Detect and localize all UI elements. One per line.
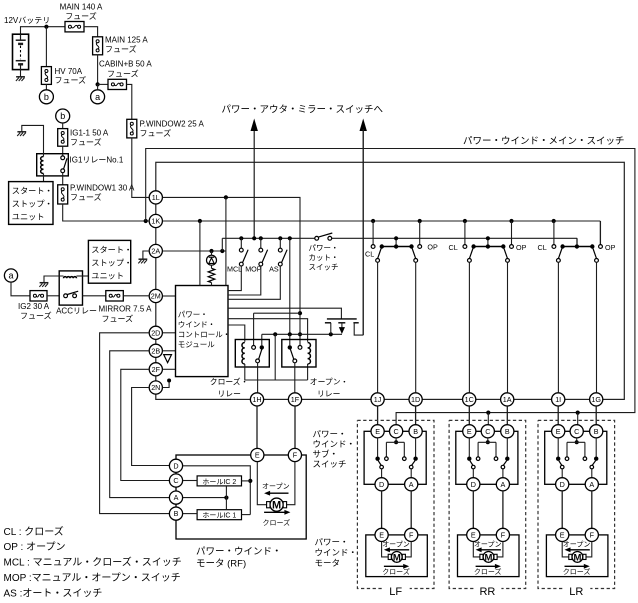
svg-text:CL : クローズ: CL : クローズ xyxy=(4,525,64,538)
svg-text:パワー・ウインド・: パワー・ウインド・ xyxy=(196,547,282,558)
svg-text:P.WINDOW1 30 A: P.WINDOW1 30 A xyxy=(70,184,135,193)
svg-text:ACCリレー: ACCリレー xyxy=(56,307,97,316)
wire 1K bus xyxy=(163,220,601,222)
svg-text:ユニット: ユニット xyxy=(12,213,45,222)
arrow to mirror switch right xyxy=(362,130,364,336)
svg-text:E: E xyxy=(471,531,476,540)
resistor for LED xyxy=(211,265,213,268)
node relay bus riser join xyxy=(288,332,292,336)
svg-text:ホールIC 1: ホールIC 1 xyxy=(202,512,236,520)
svg-text:CL: CL xyxy=(538,243,547,252)
wire LR A to motor F xyxy=(591,491,593,528)
wire module to close relay coil xyxy=(228,325,245,342)
node top-wire junction xyxy=(44,25,48,29)
pin 1J xyxy=(371,393,384,406)
svg-text:モータ: モータ xyxy=(315,558,341,568)
motor LR xyxy=(572,552,583,563)
svg-text:IG1-1 50 A: IG1-1 50 A xyxy=(70,129,109,138)
wire P.WINDOW1 to 1K xyxy=(63,204,149,221)
switch MCL xyxy=(240,238,242,248)
motor LF xyxy=(391,552,402,563)
wire module to MOSFET gate xyxy=(228,308,341,319)
switch LR left arm xyxy=(559,461,562,466)
wire RR to A xyxy=(502,469,504,478)
svg-text:MCL: MCL xyxy=(227,265,242,274)
wire IG1 coil to start-stop unit xyxy=(43,174,45,182)
wire close relay NC riser xyxy=(261,334,263,345)
pin RF B xyxy=(169,507,182,520)
wire RF A to hall supply xyxy=(183,497,227,499)
wire LF to D xyxy=(381,469,383,478)
wire module to open relay coil xyxy=(228,319,308,342)
svg-text:カット・: カット・ xyxy=(309,253,339,262)
svg-text:オープン: オープン xyxy=(563,540,591,548)
svg-text:1G: 1G xyxy=(591,395,601,404)
box RR motor xyxy=(458,535,520,577)
svg-text:1J: 1J xyxy=(374,395,382,404)
pin 1A xyxy=(501,393,514,406)
svg-text:クローズ: クローズ xyxy=(382,567,410,576)
svg-text:MOP: MOP xyxy=(245,265,262,274)
arrow LF open xyxy=(388,549,409,551)
wire LR motor leads xyxy=(562,542,568,557)
motor RF xyxy=(270,498,283,511)
wire 1K bus end down to G3 OP xyxy=(599,221,601,245)
wire 1L riser to module top xyxy=(225,197,227,285)
wire ground to IG1 coil xyxy=(22,125,44,156)
switch AS xyxy=(279,238,281,248)
wire hall1 output xyxy=(242,514,251,516)
svg-text:ユニット: ユニット xyxy=(91,272,124,281)
svg-text:クローズ・: クローズ・ xyxy=(210,377,249,387)
pin LR motor F xyxy=(585,528,598,541)
wire LR to A xyxy=(591,469,593,478)
svg-text:E: E xyxy=(379,531,384,540)
pin RF A xyxy=(169,491,182,504)
pin LF motor E xyxy=(375,528,388,541)
node 1L riser at y313 xyxy=(298,311,302,315)
fuse CABIN+B 50A xyxy=(108,79,127,89)
svg-text:スタート・: スタート・ xyxy=(12,187,53,196)
svg-text:B: B xyxy=(505,427,510,436)
wire module riser from 1K bus xyxy=(199,221,201,286)
svg-text:C: C xyxy=(574,427,579,436)
wire b to IG1-1 fuse xyxy=(62,123,64,129)
node 1K bus tap G3 CL xyxy=(552,219,556,223)
svg-text:2M: 2M xyxy=(151,292,161,301)
node 1K bus module riser xyxy=(198,219,202,223)
svg-text:E: E xyxy=(560,531,565,540)
wire C-feed RR drop xyxy=(487,413,489,426)
svg-text:HV 70A: HV 70A xyxy=(55,67,83,76)
svg-text:パワー・: パワー・ xyxy=(178,310,208,319)
svg-text:フューズ: フューズ xyxy=(102,314,134,324)
wire 2A line xyxy=(163,250,226,252)
pin RR motor F xyxy=(496,528,509,541)
wire LF C bracket xyxy=(395,438,397,442)
wire bus riser to relay bus xyxy=(289,238,291,334)
svg-text:2A: 2A xyxy=(151,247,160,256)
svg-text:b: b xyxy=(60,111,65,121)
wire close relay NO riser xyxy=(253,313,255,345)
svg-text:IG2 30 A: IG2 30 A xyxy=(18,302,50,311)
svg-text:M: M xyxy=(393,552,401,563)
svg-text:MOP :マニュアル・オープン・スイッチ: MOP :マニュアル・オープン・スイッチ xyxy=(4,572,181,584)
transistor MOSFET xyxy=(327,318,357,320)
node hall supply xyxy=(224,496,228,500)
wire 1-pin to LR E xyxy=(557,406,559,425)
svg-text:フューズ: フューズ xyxy=(70,137,102,147)
svg-text:パワー・ウインド・メイン・スイッチ: パワー・ウインド・メイン・スイッチ xyxy=(463,136,625,147)
wire LF to A xyxy=(410,469,412,478)
wire 2D to pin B of RF motor xyxy=(100,333,170,514)
svg-text:オープン・: オープン・ xyxy=(310,378,349,387)
wire MCL-bus left riser xyxy=(221,238,223,251)
svg-text:ストップ・: ストップ・ xyxy=(91,259,132,268)
fuse MAIN 125A xyxy=(93,37,103,55)
wire open coil bottom xyxy=(307,364,309,380)
wire IG1 switch to P.WINDOW1 fuse xyxy=(62,173,64,185)
svg-text:LF: LF xyxy=(389,586,402,598)
node b lower xyxy=(56,109,70,123)
switch rocker G2 (RR window) xyxy=(464,221,466,245)
switch rocker G1 (RF window) xyxy=(372,221,374,245)
pin LF D xyxy=(375,478,388,491)
node bus tap MOP xyxy=(259,236,263,240)
pin LR A xyxy=(585,478,598,491)
wire AS to module xyxy=(228,266,280,299)
pin 1H xyxy=(250,393,263,406)
node wire1 branch on 1K wire xyxy=(144,219,148,223)
svg-text:サブ・: サブ・ xyxy=(313,449,339,459)
pin LR D xyxy=(556,478,569,491)
svg-text:オープン: オープン xyxy=(474,540,502,548)
wire 1L to relay riser xyxy=(163,197,300,345)
pin 1I xyxy=(552,393,565,406)
node LED tap xyxy=(209,249,213,253)
pin 1F xyxy=(288,393,301,406)
svg-text:フューズ: フューズ xyxy=(70,192,102,202)
wire 1F to RF motor F xyxy=(294,406,296,448)
svg-text:コントロール・: コントロール・ xyxy=(178,330,231,339)
wire RF D to hall outputs xyxy=(183,466,251,515)
wire 2D to module xyxy=(163,332,176,334)
fuse IG1-1 50A xyxy=(58,129,68,147)
node C-feed RR xyxy=(486,411,490,415)
svg-text:MAIN 140 A: MAIN 140 A xyxy=(60,3,103,12)
wire junction down to HV fuse xyxy=(45,27,47,67)
pin RR sub C xyxy=(481,425,494,438)
box LF sub-switch xyxy=(364,431,426,484)
wire 2A to ground xyxy=(143,251,149,259)
node 1L riser at y334 xyxy=(298,332,302,336)
svg-text:E: E xyxy=(467,427,472,436)
switch LF left arm xyxy=(378,461,381,466)
svg-text:OP: OP xyxy=(427,243,438,252)
svg-text:オープン: オープン xyxy=(262,483,290,491)
svg-text:A: A xyxy=(174,493,179,502)
switch LF right arm xyxy=(412,461,416,466)
module power window control xyxy=(176,286,229,377)
node bus relay riser xyxy=(288,236,292,240)
wire node to CABIN fuse xyxy=(98,83,108,85)
pin LR sub C xyxy=(570,425,583,438)
svg-text:2N: 2N xyxy=(151,383,160,392)
wire relay NO link y313 xyxy=(254,312,300,314)
wire bus2 end down to G3 center xyxy=(576,238,578,244)
pin LF sub B xyxy=(409,425,422,438)
svg-text:B: B xyxy=(413,427,418,436)
wire close relay common to 1H xyxy=(257,363,259,393)
wire IG1-1 fuse to relay xyxy=(62,146,64,155)
svg-text:CL: CL xyxy=(365,250,374,259)
switch power cut xyxy=(315,236,319,240)
wire battery top to MAIN140 fuse xyxy=(21,27,66,35)
svg-text:A: A xyxy=(501,480,506,489)
box RR sub-switch xyxy=(456,431,518,484)
svg-text:フューズ: フューズ xyxy=(20,311,52,321)
svg-text:モータ (RF): モータ (RF) xyxy=(196,559,246,570)
wire LR C bracket xyxy=(576,438,578,442)
wire LF E contact xyxy=(377,438,379,457)
pin 2N xyxy=(149,381,162,394)
svg-text:フューズ: フューズ xyxy=(65,11,97,21)
node MOSFET source join xyxy=(329,332,333,336)
svg-text:F: F xyxy=(501,531,506,540)
ground 2A xyxy=(139,258,148,260)
wire MIRROR fuse to 2M xyxy=(123,295,149,297)
wire RR B contact xyxy=(506,438,508,457)
svg-text:1F: 1F xyxy=(291,395,300,404)
switch rocker G3 (LR window) xyxy=(553,221,555,245)
pin 2M xyxy=(149,289,162,302)
svg-text:D: D xyxy=(379,480,384,489)
wire LR B contact xyxy=(595,438,597,457)
arrow RF close xyxy=(264,511,286,513)
wire RR motor leads xyxy=(473,542,479,557)
pin RR sub E xyxy=(463,425,476,438)
pin 2D xyxy=(149,326,162,339)
svg-text:P.WINDOW2 25 A: P.WINDOW2 25 A xyxy=(140,120,205,129)
wire 2M to module xyxy=(163,295,176,297)
pin LF sub E xyxy=(371,425,384,438)
svg-text:フューズ: フューズ xyxy=(140,128,172,138)
wire riser to open relay NC xyxy=(289,334,291,345)
IC hall 2 xyxy=(197,476,241,486)
pin RF C xyxy=(169,474,182,487)
wire 1-pin to LF E xyxy=(377,406,379,425)
svg-text:b: b xyxy=(44,92,49,102)
node 1L riser top xyxy=(224,195,228,199)
node 1K bus tap G2 OP xyxy=(509,219,513,223)
wire LF D to motor E xyxy=(381,491,383,528)
pin 2F xyxy=(149,363,162,376)
svg-text:クローズ: クローズ xyxy=(474,567,502,576)
svg-text:リレー: リレー xyxy=(218,390,241,399)
wire ACC relay to MIRROR fuse xyxy=(83,295,106,297)
wire MAIN125 to node a xyxy=(97,55,99,85)
fuse P.WINDOW1 30A xyxy=(58,185,68,204)
node G2 center tap xyxy=(486,236,490,240)
svg-text:スイッチ: スイッチ xyxy=(313,459,347,469)
svg-text:1K: 1K xyxy=(151,217,160,226)
svg-text:MCL : マニュアル・クローズ・スイッチ: MCL : マニュアル・クローズ・スイッチ xyxy=(4,556,182,569)
wire 2N stub with terminal dot xyxy=(163,382,169,388)
wire RR A to motor F xyxy=(502,491,504,528)
node 1K bus tap G2 CL xyxy=(463,219,467,223)
node 1K bus tap G1 OP xyxy=(418,219,422,223)
wire ACC coil to ground xyxy=(44,276,64,283)
node G1 center tap xyxy=(394,236,398,240)
wire P.WINDOW2 to 1L xyxy=(132,138,149,198)
wire LR D to motor E xyxy=(561,491,563,528)
box LF door dashed xyxy=(357,420,434,588)
wire LF motor leads xyxy=(382,542,388,557)
switch RR left arm xyxy=(470,461,473,466)
svg-text:オープン: オープン xyxy=(382,540,410,548)
svg-text:ウインド・: ウインド・ xyxy=(313,439,356,449)
LED indicator xyxy=(211,251,213,255)
arrow to mirror switch left xyxy=(253,130,255,239)
box RR door dashed xyxy=(449,420,526,588)
pin 1D xyxy=(409,393,422,406)
svg-text:CL: CL xyxy=(449,243,458,252)
wire RR to D xyxy=(472,469,474,478)
svg-text:パワー・: パワー・ xyxy=(315,537,349,547)
pin 1G xyxy=(590,393,603,406)
box LR sub-switch xyxy=(545,431,607,484)
wire MAIN140 fuse to MAIN125 fuse xyxy=(84,27,98,37)
fuse P.WINDOW2 25A xyxy=(127,119,137,138)
svg-text:OP: OP xyxy=(605,243,616,252)
svg-text:M: M xyxy=(272,500,281,512)
svg-text:F: F xyxy=(409,531,414,540)
wire RF C to hall2 xyxy=(183,480,197,482)
box LF motor xyxy=(366,535,428,577)
IC hall 1 xyxy=(197,510,241,520)
wire 1-pin to LR B xyxy=(595,406,597,425)
svg-text:OP : オープン: OP : オープン xyxy=(4,541,66,553)
pin RR D xyxy=(467,478,480,491)
svg-text:1A: 1A xyxy=(503,395,512,404)
svg-text:ストップ・: ストップ・ xyxy=(12,200,53,209)
wire RF F to motor xyxy=(287,462,295,505)
svg-text:MIRROR 7.5 A: MIRROR 7.5 A xyxy=(99,305,153,314)
wire C-feed LR drop xyxy=(577,413,579,426)
svg-text:モジュール: モジュール xyxy=(178,340,215,349)
svg-text:M: M xyxy=(573,552,581,563)
wire RR C bracket xyxy=(487,438,489,442)
wire close coil bottom to bus xyxy=(245,364,308,380)
wire ACC coil to start-stop unit xyxy=(77,275,89,277)
svg-text:2F: 2F xyxy=(152,365,161,374)
pin LR sub E xyxy=(552,425,565,438)
pin RR A xyxy=(496,478,509,491)
svg-text:LR: LR xyxy=(569,586,583,598)
svg-text:a: a xyxy=(95,92,100,102)
ground battery xyxy=(16,76,25,78)
node b upper xyxy=(39,90,53,104)
svg-text:パワー・: パワー・ xyxy=(309,244,339,253)
wire LR to D xyxy=(561,469,563,478)
wire a to IG2 fuse xyxy=(11,282,30,296)
pin LR motor E xyxy=(556,528,569,541)
wire hall supply vertical xyxy=(225,486,227,510)
pin LF sub C xyxy=(390,425,403,438)
node a lower xyxy=(4,269,17,282)
svg-text:スイッチ: スイッチ xyxy=(309,263,339,272)
wire MOP to module xyxy=(228,266,261,295)
wire battery to ground xyxy=(20,70,22,77)
svg-text:パワー・: パワー・ xyxy=(313,429,347,439)
svg-text:D: D xyxy=(560,480,565,489)
svg-text:A: A xyxy=(589,480,594,489)
arrow RR close xyxy=(476,565,497,567)
box start-stop unit lower xyxy=(88,240,130,283)
wire open relay common to 1F xyxy=(294,363,296,393)
wire mirror line to MOSFET drain xyxy=(362,129,364,335)
arrow LR close xyxy=(565,565,586,567)
relay close xyxy=(235,340,269,368)
svg-text:ウインド・: ウインド・ xyxy=(178,320,216,329)
svg-text:ホールIC 2: ホールIC 2 xyxy=(202,478,236,486)
arrow RF open xyxy=(268,492,288,494)
switch MOP xyxy=(260,238,262,248)
box power-window main switch unit xyxy=(156,162,625,399)
arrow LR open xyxy=(569,549,590,551)
ground ACC coil xyxy=(40,282,49,284)
svg-text:フューズ: フューズ xyxy=(107,69,139,79)
svg-text:E: E xyxy=(255,451,260,460)
node mirror tap on bus xyxy=(252,236,256,240)
fuse MAIN 140A xyxy=(65,22,84,32)
wire MCL/MOP/AS bus xyxy=(222,237,315,239)
wire RR E contact xyxy=(468,438,470,457)
pin 2A xyxy=(149,244,162,257)
node 1K bus tap G1 CL xyxy=(371,219,375,223)
svg-text:1L: 1L xyxy=(152,193,160,202)
svg-text:1H: 1H xyxy=(252,395,261,404)
node bus tap MCL xyxy=(239,236,243,240)
node CABIN branch xyxy=(96,82,100,86)
wire outer loop from 1K to sub-switch C pins xyxy=(146,149,635,425)
ground IG1 relay coil xyxy=(17,131,26,133)
wire RR D to motor E xyxy=(472,491,474,528)
wire RF E to motor xyxy=(257,462,266,505)
svg-text:1D: 1D xyxy=(411,395,420,404)
switch LR right arm xyxy=(592,461,596,466)
pin RR sub B xyxy=(501,425,514,438)
pin 1K xyxy=(149,214,162,227)
wire 1-pin to RR E xyxy=(468,406,470,425)
wire RF B to hall1 xyxy=(183,513,197,515)
svg-text:ウインド・: ウインド・ xyxy=(315,548,358,558)
svg-text:フューズ: フューズ xyxy=(105,44,137,54)
svg-text:MAIN 125 A: MAIN 125 A xyxy=(105,36,148,45)
node coil-bottom riser xyxy=(273,332,277,336)
battery 12V xyxy=(13,34,29,69)
svg-text:A: A xyxy=(409,480,414,489)
svg-text:RR: RR xyxy=(479,586,495,598)
node a upper xyxy=(91,90,105,104)
pin RF F xyxy=(288,448,301,461)
wire IG2 fuse to ACC relay xyxy=(47,295,59,297)
wire HV fuse to node b xyxy=(45,84,47,90)
wire 1-pin to RR B xyxy=(506,406,508,425)
svg-text:クローズ: クローズ xyxy=(263,518,291,527)
svg-text:パワー・アウタ・ミラー・スイッチへ: パワー・アウタ・ミラー・スイッチへ xyxy=(222,105,384,116)
svg-text:C: C xyxy=(485,427,490,436)
